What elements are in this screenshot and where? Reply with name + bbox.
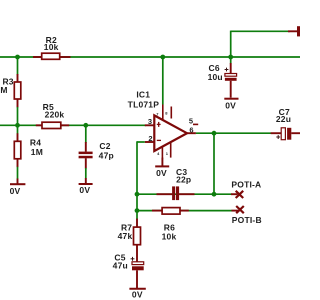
wire top-right branch vertical [230, 31, 232, 64]
pin 3 lead [145, 124, 155, 126]
svg-text:0V: 0V [79, 185, 90, 195]
value 47k of R7 [118, 231, 133, 241]
junction inverting/C3 [135, 192, 140, 197]
op-amp IC1 triangle [154, 115, 187, 151]
wire C2 to ground [85, 168, 87, 179]
svg-text:10k: 10k [44, 42, 59, 52]
pin 1 stub [170, 143, 172, 158]
label R5 [43, 102, 54, 112]
pin 6 output lead [187, 132, 196, 134]
value 10k of R6 [162, 232, 177, 242]
pin number 2 [148, 134, 152, 143]
svg-text:0V: 0V [10, 186, 21, 196]
label C3 [176, 167, 187, 177]
svg-text:3: 3 [148, 117, 152, 126]
terminal pin top right [288, 26, 300, 36]
svg-text:R4: R4 [30, 138, 41, 148]
wire VCC rail top [0, 56, 300, 58]
label IC1 [136, 89, 150, 99]
pin 8 stub [170, 107, 172, 119]
label 0V below R4 [10, 186, 21, 196]
junction output/feedback [212, 131, 217, 136]
op-amp plus mark (pin 3 input) [157, 122, 161, 127]
junction C3/feedback [212, 192, 217, 197]
junction inverting/R6 [135, 208, 140, 213]
resistor R5 [36, 122, 69, 128]
label R6 [164, 222, 175, 232]
capacitor C7 polarized [271, 128, 300, 140]
pin number 5 [189, 116, 193, 125]
wire R3 bottom to junction [17, 107, 19, 125]
plus mark of C7 [276, 135, 280, 139]
svg-text:6: 6 [189, 126, 193, 135]
svg-text:5: 5 [189, 116, 193, 125]
svg-text:0V: 0V [156, 168, 167, 178]
wire R6 row [137, 210, 232, 212]
svg-text:1: 1 [166, 151, 169, 156]
plus mark of C6 [225, 68, 229, 72]
junction C2/row [83, 123, 88, 128]
svg-text:10u: 10u [208, 72, 223, 82]
pin 5 stub [193, 123, 198, 125]
pin number 1 [166, 151, 169, 156]
svg-text:220k: 220k [45, 110, 65, 120]
svg-text:4: 4 [157, 151, 160, 156]
label 0V below C6 [225, 100, 236, 110]
op-amp minus mark (pin 2 input) [157, 139, 161, 141]
pin number 7 [156, 111, 159, 116]
label R3 [2, 76, 13, 86]
pin 2 lead [145, 141, 155, 143]
label POTI-B [232, 215, 262, 225]
svg-text:8: 8 [165, 111, 168, 116]
value 1M of R4 [31, 147, 43, 157]
svg-text:10k: 10k [162, 232, 177, 242]
value 10k of R2 [44, 42, 59, 52]
value TL071P of IC1 [128, 99, 160, 109]
junction R3/R4/row [15, 123, 20, 128]
svg-text:TL071P: TL071P [128, 99, 160, 109]
svg-text:POTI-A: POTI-A [231, 179, 261, 189]
label 0V below C5 [132, 289, 143, 299]
wire R3 top [17, 57, 19, 75]
svg-text:47u: 47u [113, 261, 128, 271]
resistor R3 [14, 74, 20, 108]
label R2 [46, 35, 57, 45]
wire inverting input vertical [137, 141, 145, 219]
pin number 8 [165, 111, 168, 116]
wire input row mid [0, 124, 146, 126]
pin number 4 [157, 151, 160, 156]
svg-text:47p: 47p [99, 151, 114, 161]
wire output row [196, 132, 271, 134]
label R7 [121, 222, 132, 232]
svg-text:2: 2 [148, 134, 152, 143]
svg-text:0V: 0V [225, 100, 236, 110]
pin number 3 [148, 117, 152, 126]
value 22u of C7 [276, 114, 291, 124]
node POTI-A lead [231, 193, 238, 195]
value 47p of C2 [99, 151, 114, 161]
ground symbol below C2 [79, 178, 93, 184]
wire C3 row [137, 193, 232, 195]
svg-text:IC1: IC1 [136, 89, 150, 99]
label C5 [114, 252, 125, 262]
wire feedback vertical [213, 133, 215, 194]
svg-text:1M: 1M [31, 147, 43, 157]
svg-text:0V: 0V [132, 289, 143, 299]
junction VCC/opamp supply [160, 55, 165, 60]
ground symbol below C5 [129, 288, 145, 290]
svg-text:1M: 1M [0, 85, 8, 95]
svg-text:POTI-B: POTI-B [232, 215, 262, 225]
wire R4 top [17, 125, 19, 134]
label C2 [99, 141, 110, 151]
label R4 [30, 138, 41, 148]
pin 7 supply stub [162, 105, 164, 121]
resistor R6 [152, 208, 189, 215]
pin number 6 [189, 126, 193, 135]
svg-text:7: 7 [156, 111, 159, 116]
capacitor C5 polarized [132, 262, 144, 288]
capacitor C2 [79, 142, 93, 169]
svg-text:22u: 22u [276, 114, 291, 124]
value 1M of R3 (clipped at left edge) [0, 85, 8, 95]
ground symbol below C6 [224, 98, 238, 100]
value 10u of C6 [208, 72, 223, 82]
wire C2 top [85, 125, 87, 143]
wire top-right branch horizontal [231, 30, 290, 32]
label C7 [279, 107, 290, 117]
label 0V below C2 [79, 185, 90, 195]
label C6 [209, 63, 220, 73]
svg-text:22p: 22p [176, 175, 191, 185]
label 0V below op-amp [156, 168, 167, 178]
node POTI-B lead [232, 210, 239, 212]
ground symbol below op-amp [155, 158, 169, 167]
junction VCC/R3 [15, 55, 20, 60]
wire R4 to ground [17, 167, 19, 179]
resistor R7 [134, 219, 141, 262]
resistor R4 [14, 133, 20, 167]
capacitor C3 [157, 186, 195, 200]
capacitor C6 polarized [225, 63, 237, 98]
label POTI-A [231, 179, 261, 189]
svg-text:C2: C2 [99, 141, 110, 151]
ground symbol below R4 [10, 179, 25, 185]
junction VCC/C6 [228, 55, 233, 60]
value 220k of R5 [45, 110, 65, 120]
wire opamp V+ supply drop [162, 57, 164, 105]
value 47u of C5 [113, 261, 128, 271]
svg-text:47k: 47k [118, 231, 133, 241]
value 22p of C3 [176, 175, 191, 185]
plus mark of C5 [131, 257, 135, 261]
pin 4 supply stub [161, 146, 163, 158]
node POTI-B X mark [236, 206, 244, 213]
resistor R2 [33, 53, 71, 59]
node POTI-A X mark [236, 191, 244, 198]
